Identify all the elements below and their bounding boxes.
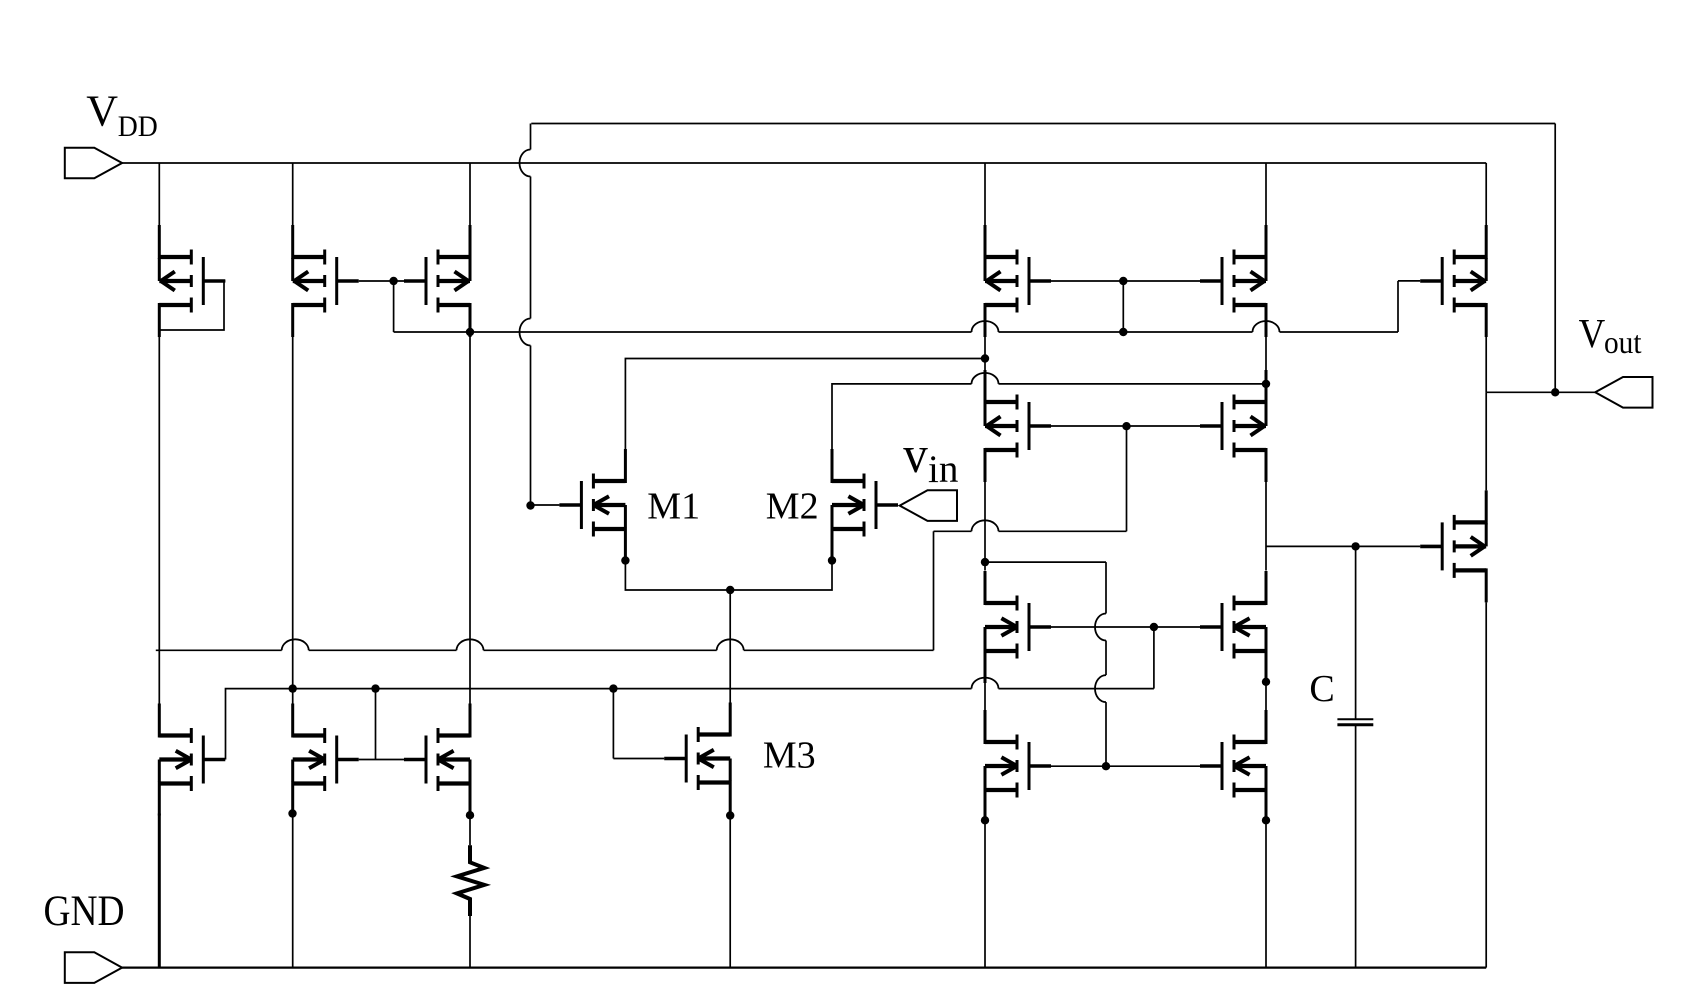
M1 label bbox=[647, 486, 700, 528]
nmos M1 bbox=[559, 449, 625, 561]
node nmos cascode gate junction bbox=[1150, 623, 1158, 631]
wire M4 gate-drain diode link bbox=[159, 281, 225, 330]
Vin port bbox=[900, 490, 957, 521]
pmos M5 bbox=[293, 225, 359, 337]
wire M7-M8 gate tie bbox=[1051, 281, 1200, 332]
wire tail to M3 drain bbox=[729, 590, 731, 703]
wire to M1 gate bbox=[531, 504, 560, 506]
wire M3 gate to nbias bus bbox=[613, 689, 664, 759]
wire Vout bbox=[1486, 391, 1595, 393]
node M15 drain junction bbox=[289, 684, 297, 692]
node M5-M6 gate junction bbox=[389, 277, 397, 285]
wire pbias bus bbox=[394, 281, 1421, 332]
node M3 gate tap bbox=[609, 684, 617, 692]
pmos M9 (output) bbox=[1420, 225, 1486, 337]
GND port bbox=[65, 952, 122, 983]
wire stage1 output to output nmos gates bbox=[985, 562, 1106, 766]
nmos M15 (diode-connected) bbox=[293, 704, 359, 816]
node M7-M8 gate junction bbox=[1119, 277, 1127, 285]
wire M2 drain to right cascode node bbox=[832, 373, 1266, 449]
capacitor C bbox=[1337, 546, 1373, 967]
node M3 source bbox=[726, 811, 734, 819]
svg-text:in: in bbox=[928, 448, 958, 491]
M2 label bbox=[766, 486, 819, 528]
wire VDD to M8 source bbox=[1265, 163, 1267, 226]
node first stage output bbox=[981, 558, 989, 566]
wire VDD to M7 source bbox=[984, 163, 986, 226]
node M2 source bbox=[828, 556, 836, 564]
wire M6 drain down bbox=[469, 337, 471, 704]
wire M8 drain down bbox=[1265, 337, 1267, 370]
wire feedback top bbox=[531, 123, 1555, 125]
wire tail node bbox=[625, 561, 832, 591]
wire M19 drain to GND bbox=[1485, 602, 1487, 967]
Vout label bbox=[1579, 310, 1642, 360]
nmos M16 bbox=[404, 704, 470, 816]
wire M7 drain down bbox=[984, 337, 986, 370]
pmos cascode M10 bbox=[985, 370, 1051, 482]
wire M13 source to M18 drain bbox=[1265, 683, 1267, 711]
pmos cascode M11 bbox=[1200, 370, 1266, 482]
nmos M3 (tail current source) bbox=[664, 703, 730, 815]
wire feedback right drop to Vout bbox=[1554, 124, 1556, 393]
wire M14 source to GND bbox=[158, 814, 161, 968]
nmos M18 (output) bbox=[1200, 710, 1266, 822]
node pbias bus tap bbox=[1119, 328, 1127, 336]
node M13 source bbox=[1262, 678, 1270, 686]
Vin label bbox=[903, 427, 958, 491]
node M16 source bbox=[466, 811, 474, 819]
node cascode gate junction bbox=[1122, 422, 1130, 430]
svg-text:C: C bbox=[1309, 668, 1334, 710]
node Vout junction bbox=[1551, 388, 1559, 396]
wire GND rail bbox=[122, 966, 1486, 968]
C label bbox=[1309, 668, 1334, 710]
nmos cascode M12 bbox=[985, 571, 1051, 683]
node M18 source bbox=[1262, 816, 1270, 824]
node M1 source bbox=[621, 556, 629, 564]
nmos M14 bbox=[159, 704, 225, 816]
node M1 drain junction bbox=[981, 354, 989, 362]
wire cascode output to M19 gate bbox=[1266, 545, 1420, 547]
wire M15-M16 gate tie bbox=[359, 689, 404, 760]
wire resistor to GND bbox=[469, 916, 471, 968]
svg-text:V: V bbox=[1579, 310, 1606, 356]
VDD port bbox=[65, 148, 122, 179]
pmos M7 bbox=[985, 225, 1051, 337]
node M17 source bbox=[981, 816, 989, 824]
wire M3 source to GND bbox=[729, 813, 731, 968]
wire M17-M18 gate tie bbox=[1051, 765, 1200, 767]
svg-text:M2: M2 bbox=[766, 486, 819, 528]
GND label bbox=[44, 888, 125, 935]
svg-text:M1: M1 bbox=[647, 486, 700, 528]
pmos M19 (output buffer) bbox=[1420, 490, 1486, 602]
Vout port bbox=[1595, 377, 1652, 408]
resistor R1 bbox=[457, 845, 484, 916]
wire pcascode bias bus bbox=[156, 531, 934, 650]
pmos M8 bbox=[1200, 225, 1266, 337]
wire VDD to M5 source bbox=[292, 163, 294, 226]
wire M18 source to GND bbox=[1265, 818, 1267, 968]
wire M5-M6 gate tie bbox=[359, 281, 404, 332]
wire VDD to M4 source bbox=[158, 163, 160, 226]
svg-text:v: v bbox=[903, 427, 928, 484]
wire M15 source to GND bbox=[292, 814, 294, 968]
wire M8 drain to M11 bbox=[1265, 482, 1267, 571]
wire VDD rail bbox=[122, 162, 1486, 164]
nmos M2 bbox=[832, 449, 898, 561]
M3 label bbox=[763, 735, 816, 777]
svg-text:M3: M3 bbox=[763, 735, 816, 777]
wire M4 drain down bbox=[158, 337, 160, 704]
nmos M17 (output) bbox=[985, 710, 1051, 822]
node cap top junction bbox=[1351, 542, 1359, 550]
wire M16 source to resistor bbox=[469, 814, 471, 846]
wire M10-M11 gate tie bbox=[1051, 426, 1200, 531]
wire M5 drain down bbox=[292, 337, 294, 704]
node M15 source bbox=[288, 809, 296, 817]
pmos M6 (diode-connected) bbox=[404, 225, 470, 337]
node M2 drain junction bbox=[1262, 380, 1270, 388]
node output nmos gate junction bbox=[1102, 762, 1110, 770]
node M15-M16 gate tap bbox=[371, 684, 379, 692]
wire M1 drain up to cascode node bbox=[625, 359, 985, 450]
wire feedback left drop to M1 gate bbox=[520, 124, 531, 506]
nmos cascode M13 bbox=[1200, 571, 1266, 683]
svg-text:V: V bbox=[86, 86, 118, 135]
svg-text:out: out bbox=[1604, 324, 1642, 360]
VDD label bbox=[86, 86, 158, 143]
pmos M4 (diode-connected mirror) bbox=[159, 225, 225, 337]
wire pcascode bias upper run bbox=[934, 520, 1127, 531]
wire M19 source to Vout node bbox=[1485, 392, 1487, 490]
node tail junction bbox=[726, 586, 734, 594]
svg-text:GND: GND bbox=[44, 888, 125, 935]
node M6 drain junction bbox=[466, 328, 474, 336]
node M1 gate bbox=[526, 501, 534, 509]
wire M7 drain to M10 bbox=[984, 482, 986, 571]
wire M17 source to GND bbox=[984, 818, 986, 968]
svg-text:DD: DD bbox=[118, 111, 158, 143]
wire VDD to M9 source bbox=[1485, 163, 1487, 226]
wire VDD to M6 source bbox=[469, 163, 471, 226]
wire nbias bus bbox=[226, 678, 1154, 760]
wire M9 drain to Vout bbox=[1485, 337, 1487, 392]
wire M12-M13 gate tie bbox=[1051, 627, 1200, 689]
wire M12 source to M17 drain bbox=[984, 683, 986, 711]
